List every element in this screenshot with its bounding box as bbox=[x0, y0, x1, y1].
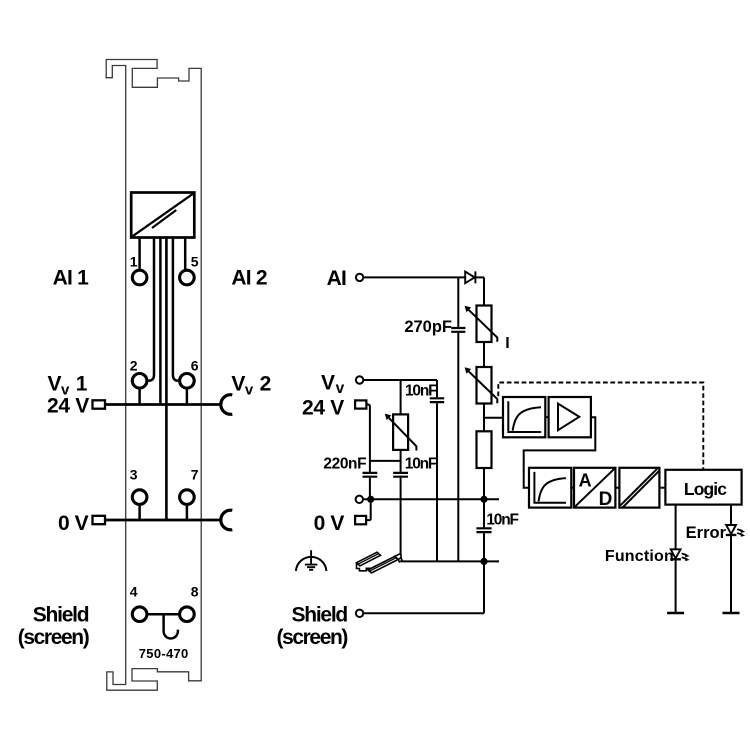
svg-text:10nF: 10nF bbox=[486, 512, 518, 529]
node AI column wire lower bbox=[457, 333, 459, 562]
svg-text:3: 3 bbox=[130, 467, 138, 483]
Function LED ground bar bbox=[667, 612, 684, 615]
svg-text:220nF: 220nF bbox=[323, 455, 366, 472]
amplifier box B2 bbox=[549, 397, 591, 437]
svg-text:Error: Error bbox=[686, 524, 727, 542]
wire Vv corner down bbox=[436, 380, 438, 397]
earth rail wire bbox=[401, 560, 499, 562]
plug terminal 0V bbox=[93, 516, 106, 524]
svg-text:Shield: Shield bbox=[33, 603, 89, 626]
capacitor C3 220nF bbox=[363, 473, 378, 477]
wire C2 to earth rail bbox=[436, 403, 438, 561]
pin 2 bbox=[132, 374, 147, 389]
wire pin2 from converter bbox=[148, 238, 154, 381]
wire pin6 from converter bbox=[173, 238, 178, 381]
wire pin5 from converter bbox=[184, 238, 187, 270]
diode D1 bbox=[465, 271, 475, 283]
filter box B1 bbox=[503, 397, 545, 437]
svg-text:5: 5 bbox=[191, 253, 199, 269]
ground symbol arc bbox=[296, 557, 327, 571]
terminal circle Shield bbox=[356, 610, 363, 617]
0V bus wire bbox=[104, 519, 222, 522]
varistor RV3 bbox=[393, 414, 408, 450]
capacitor C5 10nF bbox=[476, 528, 491, 532]
wire 0V rail to capacitor C5 bbox=[483, 499, 485, 527]
wire 24V plug to C3 bbox=[366, 405, 370, 472]
node AI column wire upper bbox=[457, 277, 459, 327]
plug terminal 24V schematic bbox=[355, 400, 366, 408]
module outline 750-470 housing bbox=[106, 60, 201, 691]
svg-text:Function: Function bbox=[605, 548, 674, 565]
plug terminal 0V schematic bbox=[355, 516, 366, 524]
svg-text:(screen): (screen) bbox=[18, 626, 89, 649]
svg-text:0 V: 0 V bbox=[58, 512, 89, 535]
filter B3 curve bbox=[539, 478, 566, 501]
converter short diagonal bbox=[152, 210, 176, 228]
wire C3 to 0V junction bbox=[369, 478, 371, 500]
socket terminal 0V right bbox=[221, 510, 233, 530]
bridge wire 24V column to varistor column bbox=[370, 460, 401, 462]
svg-text:D: D bbox=[599, 489, 613, 510]
wire Logic to Function LED bbox=[675, 505, 677, 613]
resistor R1 bbox=[477, 431, 492, 468]
wire converter to 0V bus bbox=[165, 238, 168, 520]
isolator diagonals bbox=[620, 468, 659, 508]
capacitor C2 10nF bbox=[430, 398, 444, 402]
terminal circle 0V bbox=[356, 496, 363, 503]
wire B4-B5 bbox=[615, 487, 619, 489]
svg-text:1: 1 bbox=[130, 253, 138, 269]
A/D diagonal bbox=[574, 468, 615, 507]
svg-text:Logic: Logic bbox=[684, 479, 727, 499]
svg-text:24 V: 24 V bbox=[47, 394, 89, 417]
24V bus wire bbox=[104, 403, 222, 406]
filter B1 curve bbox=[513, 407, 541, 430]
capacitor C1 270pF bbox=[451, 328, 465, 332]
wire Logic to Error LED bbox=[730, 505, 732, 613]
svg-text:Vv 2: Vv 2 bbox=[231, 373, 270, 399]
Logic box bbox=[665, 470, 741, 505]
wire shield bbox=[363, 612, 484, 614]
Function LED symbol bbox=[671, 549, 681, 558]
wire resistor to 0V rail bbox=[483, 468, 485, 499]
pin 7 bbox=[180, 490, 195, 505]
wire RV2 to resistor bbox=[483, 404, 485, 432]
wire 0V plug up to rail bbox=[366, 499, 371, 520]
wire Vv feed bbox=[363, 379, 437, 381]
filter B1 axes bbox=[508, 401, 541, 432]
filter B3 axes bbox=[534, 472, 566, 503]
wire tap to amplifier box bbox=[484, 417, 503, 419]
wire diode to right column bbox=[475, 276, 484, 278]
A/D converter box B4 bbox=[574, 468, 615, 508]
svg-text:AI: AI bbox=[327, 267, 346, 290]
svg-text:7: 7 bbox=[191, 467, 199, 483]
plug terminal 24V bbox=[93, 400, 106, 408]
Error LED ground bar bbox=[723, 612, 740, 615]
svg-text:A: A bbox=[579, 471, 592, 491]
varistor RV1 arrow bbox=[469, 310, 498, 342]
svg-text:270pF: 270pF bbox=[404, 318, 452, 336]
isolator box B5 bbox=[619, 468, 659, 508]
wire converter to 24V bus bbox=[159, 238, 162, 404]
filter box B3 bbox=[529, 468, 571, 508]
wire B5-Logic bbox=[659, 487, 665, 489]
svg-text:750-470: 750-470 bbox=[139, 646, 189, 661]
svg-text:8: 8 bbox=[191, 584, 199, 600]
varistor RV3 arrow bbox=[389, 418, 417, 451]
pin 6 bbox=[180, 374, 195, 389]
shield hook bbox=[164, 614, 178, 638]
terminal circle AI bbox=[356, 274, 363, 281]
svg-text:Shield: Shield bbox=[291, 604, 347, 627]
svg-text:10nF: 10nF bbox=[405, 382, 437, 399]
wire branch to RV3 bbox=[400, 380, 402, 414]
wire RV3 to C4 bbox=[400, 450, 402, 472]
svg-text:AI 1: AI 1 bbox=[53, 267, 89, 290]
svg-text:4: 4 bbox=[130, 584, 138, 600]
wire B3-B4 bbox=[571, 487, 574, 489]
Function LED arrows bbox=[682, 554, 687, 560]
wire B1-B2 bbox=[545, 416, 548, 418]
svg-text:Vv: Vv bbox=[321, 371, 345, 397]
pin 1 bbox=[132, 270, 147, 285]
pin 5 bbox=[180, 270, 195, 285]
wire B2 to B3 feedback path bbox=[524, 417, 596, 488]
pin 3 bbox=[132, 490, 147, 505]
converter box U1 bbox=[131, 193, 194, 238]
socket terminal Vv2 bbox=[221, 395, 233, 415]
stem pin2 to 24V bus bbox=[138, 389, 141, 404]
svg-text:10nF: 10nF bbox=[405, 455, 437, 472]
pin 4 bbox=[132, 607, 147, 622]
stem pin3 to 0V bus bbox=[138, 506, 141, 520]
varistor RV2 bbox=[477, 367, 492, 404]
junction 24V-0V node bbox=[367, 496, 374, 503]
svg-text:(screen): (screen) bbox=[276, 626, 347, 649]
converter diagonal bbox=[133, 194, 194, 237]
varistor RV1 bbox=[477, 306, 492, 343]
svg-text:I: I bbox=[505, 335, 509, 352]
wire right column top bbox=[483, 277, 485, 305]
amplifier triangle bbox=[558, 404, 579, 431]
wire AI to diode bbox=[363, 276, 464, 278]
svg-text:24 V: 24 V bbox=[302, 397, 344, 420]
capacitor C4 10nF bbox=[393, 473, 408, 477]
wire pin1 from converter bbox=[138, 238, 141, 269]
svg-text:2: 2 bbox=[130, 357, 138, 373]
stem pin6 to 24V bus bbox=[186, 389, 189, 404]
svg-text:0 V: 0 V bbox=[314, 512, 345, 535]
Error LED arrows bbox=[737, 529, 742, 535]
stem pin7 to 0V bus bbox=[186, 506, 189, 520]
0V rail wire bbox=[363, 498, 499, 500]
terminal circle Vv bbox=[356, 376, 363, 383]
ground symbol stem and bars bbox=[305, 550, 318, 570]
svg-text:AI 2: AI 2 bbox=[231, 267, 266, 290]
wire RV1 to RV2 bbox=[483, 342, 485, 367]
junction earth rail bbox=[480, 558, 487, 565]
pin 8 bbox=[180, 607, 195, 622]
wire C4 to earth rail bbox=[400, 478, 402, 562]
dashed control line from RV2 to Logic bbox=[498, 383, 703, 470]
Error LED symbol bbox=[726, 525, 736, 534]
varistor RV2 arrow bbox=[469, 371, 498, 403]
din rail symbol bbox=[357, 552, 403, 573]
wire earth rail to shield bbox=[483, 561, 485, 613]
wire C5 to earth rail bbox=[483, 533, 485, 561]
junction right column 0V rail bbox=[480, 496, 487, 503]
svg-text:6: 6 bbox=[191, 357, 199, 373]
shield link wire pin4-pin8 bbox=[147, 613, 179, 616]
